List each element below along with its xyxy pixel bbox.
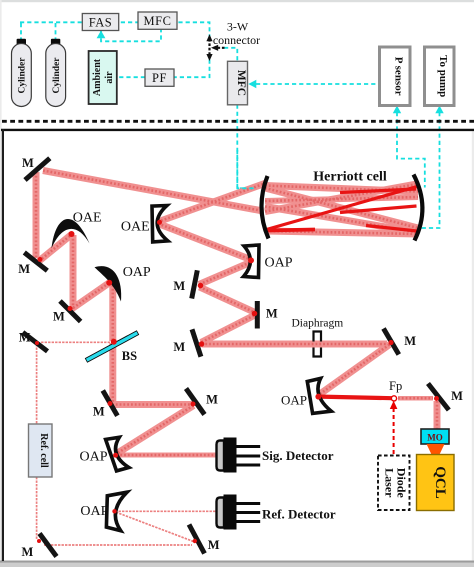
svg-text:M: M — [266, 307, 278, 321]
svg-text:Herriott cell: Herriott cell — [313, 170, 387, 185]
svg-text:PF: PF — [152, 71, 167, 85]
svg-text:OAP: OAP — [265, 256, 293, 271]
svg-text:QCL: QCL — [432, 466, 448, 499]
svg-text:connector: connector — [213, 33, 260, 47]
svg-text:3-W: 3-W — [227, 19, 249, 33]
svg-text:M: M — [19, 330, 31, 344]
svg-text:Ref. Detector: Ref. Detector — [262, 506, 336, 521]
svg-text:M: M — [93, 405, 105, 419]
svg-text:To pump: To pump — [437, 55, 449, 97]
svg-text:M: M — [22, 156, 34, 170]
svg-text:Diaphragm: Diaphragm — [292, 318, 344, 330]
svg-text:M: M — [18, 262, 30, 276]
svg-text:M: M — [53, 310, 65, 324]
svg-text:OAP: OAP — [80, 504, 108, 519]
svg-text:OAP: OAP — [123, 265, 151, 280]
svg-text:P sensor: P sensor — [393, 57, 405, 96]
svg-text:Cylinder: Cylinder — [18, 57, 28, 94]
svg-text:M: M — [451, 389, 463, 403]
svg-text:air: air — [104, 71, 115, 84]
svg-text:Ref. cell: Ref. cell — [38, 433, 49, 468]
svg-text:OAE: OAE — [121, 220, 150, 235]
svg-text:OAP: OAP — [281, 393, 307, 408]
svg-text:M: M — [404, 334, 416, 348]
svg-text:Fp: Fp — [389, 379, 402, 393]
svg-text:M: M — [173, 340, 185, 354]
svg-text:FAS: FAS — [89, 16, 113, 30]
svg-text:OAP: OAP — [80, 449, 108, 464]
svg-text:MFC: MFC — [235, 70, 247, 96]
svg-text:Ambient: Ambient — [92, 58, 103, 96]
svg-text:BS: BS — [122, 349, 137, 363]
svg-text:Sig. Detector: Sig. Detector — [262, 448, 334, 463]
svg-text:Cylinder: Cylinder — [52, 57, 62, 94]
svg-text:M: M — [173, 279, 185, 293]
svg-text:MFC: MFC — [144, 14, 172, 28]
svg-text:M: M — [21, 545, 33, 559]
svg-text:M: M — [208, 538, 220, 552]
svg-text:M: M — [206, 392, 218, 406]
svg-text:OAE: OAE — [73, 211, 102, 226]
svg-text:MO: MO — [427, 433, 443, 443]
svg-text:Laser: Laser — [383, 468, 397, 498]
